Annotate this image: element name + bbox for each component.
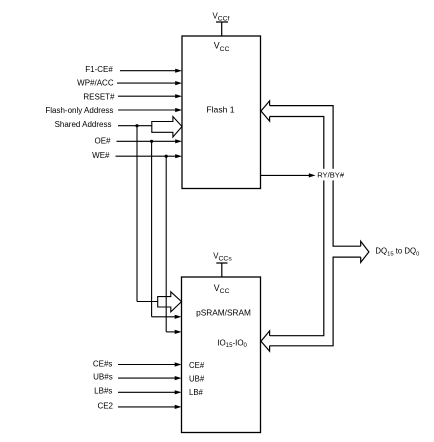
svg-text:CE2: CE2 xyxy=(97,401,113,410)
svg-text:LB#s: LB#s xyxy=(94,387,112,396)
svg-text:RESET#: RESET# xyxy=(83,93,115,102)
svg-text:RY/BY#: RY/BY# xyxy=(317,171,345,180)
svg-text:WP#/ACC: WP#/ACC xyxy=(77,79,114,88)
svg-text:Shared Address: Shared Address xyxy=(55,120,112,129)
svg-text:UB#s: UB#s xyxy=(93,373,113,382)
svg-text:pSRAM/SRAM: pSRAM/SRAM xyxy=(196,308,251,318)
svg-text:Flash 1: Flash 1 xyxy=(206,104,234,114)
svg-text:CE#s: CE#s xyxy=(93,360,113,369)
svg-text:OE#: OE# xyxy=(94,137,111,146)
svg-text:UB#: UB# xyxy=(189,374,205,383)
svg-text:LB#: LB# xyxy=(189,388,204,397)
svg-text:Flash-only Address: Flash-only Address xyxy=(45,106,113,115)
svg-text:CE#: CE# xyxy=(189,361,205,370)
svg-text:F1-CE#: F1-CE# xyxy=(85,65,113,74)
svg-text:WE#: WE# xyxy=(92,151,110,160)
